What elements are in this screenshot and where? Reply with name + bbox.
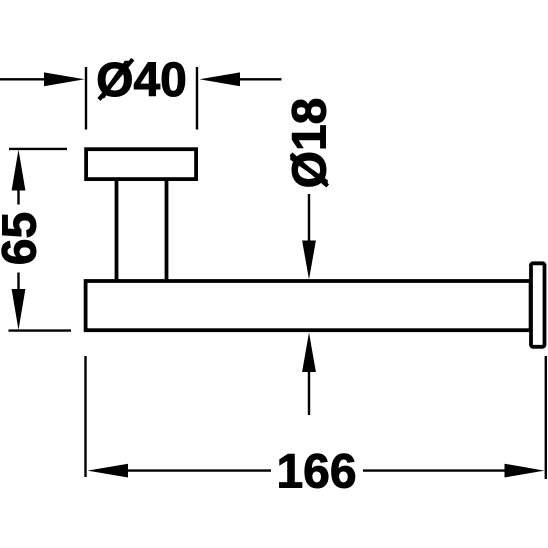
post (vertical stem) right line	[165, 180, 169, 281]
dimension Ø40: right leader line	[239, 78, 282, 80]
dimension 65: up arrowhead	[12, 150, 26, 191]
horizontal bar (roll holder arm)	[86, 281, 531, 330]
dimension 166: left extension line	[84, 356, 86, 477]
dimension Ø40: left leader line	[0, 78, 46, 80]
dimension 166: left arrowhead	[88, 464, 129, 478]
dimension 65: top tick line	[9, 148, 67, 150]
svg-text:166: 166	[276, 446, 356, 499]
svg-text:Ø18: Ø18	[284, 98, 337, 189]
dimension Ø40: left extension line	[85, 67, 87, 130]
dimension Ø40: left arrowhead	[44, 72, 85, 86]
dimension 166: text	[276, 446, 356, 499]
dimension 65: upper stem	[17, 190, 19, 205]
dimension 65: down arrowhead	[12, 289, 26, 330]
wall flange (mounting plate)	[86, 149, 196, 179]
dimension Ø40: right extension line	[196, 67, 198, 130]
svg-text:Ø40: Ø40	[96, 54, 187, 107]
dimension 166: right dimension line	[363, 469, 506, 471]
dimension Ø18: upper stem	[308, 194, 310, 241]
end cap (right rosette)	[531, 263, 545, 347]
dimension Ø40: text	[96, 54, 187, 107]
dimension Ø18: lower stem	[308, 372, 310, 416]
post (vertical stem) left line	[115, 180, 119, 281]
dimension Ø18: down arrowhead (to bar top)	[302, 241, 316, 280]
dimension Ø18: up arrowhead (to bar bottom)	[302, 333, 316, 373]
svg-text:65: 65	[0, 212, 46, 265]
dimension 166: right extension line	[545, 356, 547, 479]
dimension 65: bottom tick line	[9, 329, 72, 331]
dimension 65: text	[0, 212, 46, 265]
dimension Ø18: text	[284, 98, 337, 189]
dimension 166: left dimension line	[127, 469, 271, 471]
dimension 166: right arrowhead	[505, 464, 545, 478]
dimension 65: lower stem	[17, 273, 19, 291]
dimension Ø40: right arrowhead	[200, 72, 241, 86]
